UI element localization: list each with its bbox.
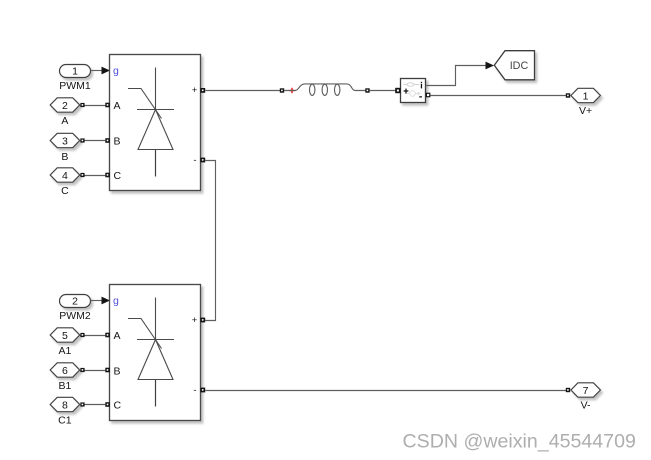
svg-text:1: 1 xyxy=(72,66,78,78)
svg-text:IDC: IDC xyxy=(510,60,529,72)
wire B to bridge1 xyxy=(80,138,106,142)
thyristor symbol inside bridge 1 xyxy=(128,68,174,177)
svg-text:2: 2 xyxy=(72,296,78,308)
svg-text:A: A xyxy=(114,330,121,342)
bridge2 output port marker - xyxy=(200,388,205,393)
V- port marker xyxy=(566,388,570,392)
wire C1 to bridge2 xyxy=(80,402,106,406)
inport PWM1 xyxy=(59,65,91,93)
svg-text:-: - xyxy=(193,385,196,396)
svg-text:6: 6 xyxy=(62,365,68,377)
wire current measurement - to V+ xyxy=(430,95,566,97)
bridge1 output port marker + xyxy=(200,88,205,93)
svg-text:7: 7 xyxy=(583,385,589,397)
svg-text:C: C xyxy=(114,399,122,411)
wire A to bridge1 xyxy=(80,103,106,107)
connection port 6 (B1) xyxy=(50,363,79,392)
current measurement output port marker - xyxy=(426,93,431,98)
plus label of current measurement xyxy=(404,90,409,92)
svg-text:C: C xyxy=(61,185,69,197)
svg-text:2: 2 xyxy=(62,100,68,112)
svg-text:+: + xyxy=(192,315,198,326)
svg-text:C1: C1 xyxy=(58,415,72,427)
svg-text:g: g xyxy=(113,295,119,307)
svg-text:B: B xyxy=(114,135,121,147)
V+ port marker xyxy=(566,93,570,97)
wire bridge1 - to bridge2 + xyxy=(205,161,215,321)
bridge1 output port marker - xyxy=(200,158,205,163)
svg-text:A: A xyxy=(114,100,121,112)
connection port 3 (B) xyxy=(50,133,79,163)
current measurement block xyxy=(401,79,426,103)
connection port 2 (A) xyxy=(50,98,79,127)
minus label of current measurement xyxy=(419,96,422,97)
svg-text:B: B xyxy=(114,365,121,377)
inductor + polarity mark (red) xyxy=(289,88,294,93)
inductor left port marker xyxy=(280,88,284,92)
inductor L coil xyxy=(284,84,367,96)
thyristor bridge block 1 xyxy=(110,55,201,191)
svg-text:V+: V+ xyxy=(579,105,592,117)
faint icon inside xyxy=(404,84,420,86)
svg-text:8: 8 xyxy=(62,399,68,411)
svg-text:PWM2: PWM2 xyxy=(59,310,91,322)
connection port 8 (C1) xyxy=(50,397,79,426)
wire bridge1 + to inductor xyxy=(205,90,280,92)
current measurement input port marker xyxy=(395,88,400,93)
bridge2 input port marker + xyxy=(200,318,205,323)
bridge1 left edge port markers xyxy=(105,103,110,178)
wire A1 to bridge2 xyxy=(80,333,106,337)
svg-text:-: - xyxy=(193,155,196,166)
wire i signal to IDC goto xyxy=(426,62,495,86)
svg-text:PWM1: PWM1 xyxy=(59,80,91,92)
connection port 7 (V-) xyxy=(571,383,601,412)
wire PWM2 to g xyxy=(91,297,111,305)
svg-text:+: + xyxy=(192,85,198,96)
connection port 4 (C) xyxy=(50,168,79,197)
connection port 5 (A1) xyxy=(50,328,79,357)
goto tag IDC xyxy=(494,51,534,80)
connection port 1 (V+) xyxy=(571,88,601,117)
inport PWM2 xyxy=(59,295,91,323)
svg-text:A: A xyxy=(61,115,68,127)
i label of current measurement xyxy=(421,84,422,88)
svg-text:V-: V- xyxy=(581,400,591,412)
thyristor bridge block 2 xyxy=(110,285,201,421)
wire inductor to current measurement xyxy=(370,90,397,92)
svg-text:C: C xyxy=(114,170,122,182)
svg-text:A1: A1 xyxy=(58,345,71,357)
svg-text:5: 5 xyxy=(62,330,68,342)
svg-text:B: B xyxy=(61,151,68,163)
wire B1 to bridge2 xyxy=(80,368,106,372)
svg-text:g: g xyxy=(113,65,119,77)
svg-text:4: 4 xyxy=(62,170,68,182)
thyristor symbol inside bridge 2 xyxy=(128,298,174,407)
svg-text:3: 3 xyxy=(62,135,68,147)
wire bridge2 - to V- xyxy=(205,390,566,392)
svg-text:1: 1 xyxy=(583,90,589,102)
svg-text:B1: B1 xyxy=(58,380,71,392)
svg-text:CSDN @weixin_45544709: CSDN @weixin_45544709 xyxy=(403,431,636,453)
inductor right port marker xyxy=(365,88,369,92)
wire C to bridge1 xyxy=(80,173,106,177)
bridge2 left edge port markers xyxy=(105,333,110,407)
wire PWM1 to g xyxy=(91,67,111,75)
